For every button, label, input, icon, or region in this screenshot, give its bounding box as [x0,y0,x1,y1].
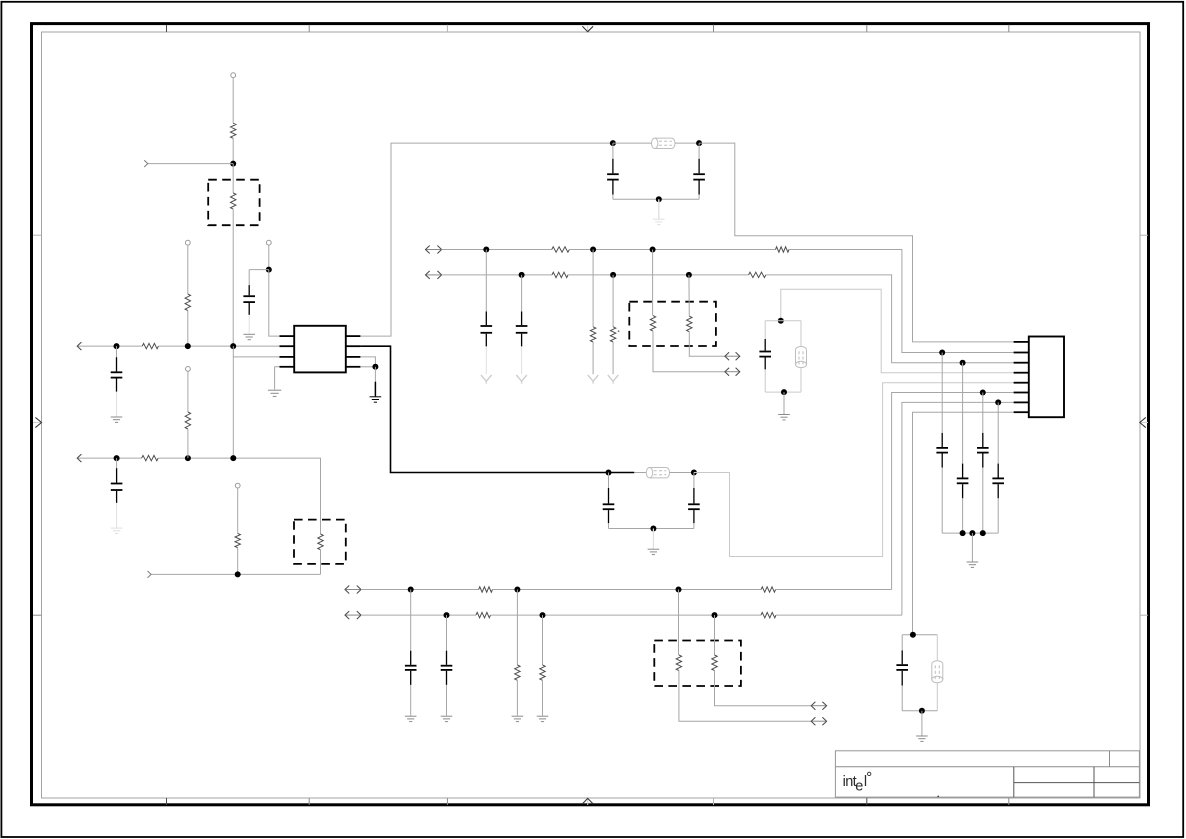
U1 pin 4 [280,366,295,368]
title block sub row line [1014,782,1140,784]
wire C-B top lead [962,363,964,464]
node feed ground [781,389,787,395]
analog ground C7 [481,375,492,384]
resistor R20 in box B3 [712,655,717,671]
J1 pin 4 [1014,372,1029,374]
wire bus5 seg2 [491,614,762,616]
capacitor C1 [111,357,123,392]
dashed option box B2 [294,520,346,564]
ground R18 [537,716,549,721]
net bus4 port arrow [345,586,361,594]
wire bus1 mid [158,345,279,347]
wire bead2 right lead [670,472,694,474]
wire C1 top lead [116,346,118,357]
wire R3 to bus1 [187,311,189,347]
resistor R14 on bus4 [761,587,776,592]
wire bus1 branch to U1 pin3 [233,346,279,357]
wire R17 to ground [516,680,518,715]
frame chevron top [582,25,593,32]
border zone tick right 1 [1140,234,1148,236]
wire C3 bottom stub [612,195,614,200]
node bead2 right [691,470,697,476]
terminal T4 [186,367,191,372]
border zone tick top 1 [166,25,168,32]
wire C7 to ground [485,346,487,374]
wire R18 to ground [542,680,544,715]
border zone tick bottom 1 [166,798,168,805]
wire R8 top lead [592,250,594,327]
U1 pin 2 [280,345,295,347]
resistor R16 on bus5 [761,612,776,617]
title block row line [835,766,1139,768]
wire R11 top lead [612,275,614,327]
wire U1 pin4 to ground [275,367,280,390]
wire cap rail ground stem [971,533,973,561]
ferrite bead FB2 [646,468,669,478]
resistor R11 [610,327,615,342]
border zone tick top 5 [866,25,868,32]
resistor R10 in box B1 [650,316,655,332]
wire C-D bottom lead [997,498,999,533]
port arrow R20 [811,702,826,710]
ferrite bead FB3 [796,347,807,368]
wire C-A bottom lead [941,468,943,533]
junction pin7/C-D [995,399,1001,405]
terminal T1 [231,73,236,78]
wire C17 bottom lead [901,686,903,711]
border zone tick left 2 [33,614,42,616]
wire C9 top lead [764,321,766,339]
node B junction [266,267,272,273]
terminal T5 [235,483,240,488]
junction bus3/R12 [686,272,692,278]
J1 pin 2 [1014,352,1029,354]
wire bead1 left lead [613,142,652,144]
net bus5 port arrow [345,611,361,619]
title block top divider [1109,751,1111,767]
wire C8 to ground [521,346,523,374]
wire C9 bottom lead [764,369,766,392]
wire C1 to ground [116,392,118,417]
wire pin7 net to bus5 [902,402,1014,615]
border zone tick top 6 [1008,25,1010,32]
wire U1 pin5 to node C [360,366,375,368]
wire R12 to port [689,332,725,357]
wire C4 bottom stub [698,195,700,200]
wire FB4 top lead [936,635,938,661]
wire node C ground lead lower [374,382,376,397]
wire bead1 ground stem [658,199,660,219]
wire C15 to ground [446,685,448,716]
ground bead1 [653,219,665,224]
wire C-B bottom lead [962,498,964,533]
wire bus4 seg2 [493,589,762,591]
resistor R17 [515,665,520,680]
wire bead2 left lead [634,472,646,474]
frame chevron left [33,417,42,427]
border zone tick bottom 4 [713,798,715,805]
border zone tick bottom 6 [1008,798,1010,805]
node bead2 left [606,470,612,476]
wire bead1 ground rail [613,198,699,200]
junction bus4/R19 [676,587,682,593]
border zone tick right 2 [1140,614,1148,616]
node A junction [230,161,236,167]
wire R23 to node D rail [320,550,322,575]
wire T5 to R24 [237,488,239,533]
ground C15 [441,716,453,721]
svg-text:l: l [864,774,867,790]
capacitor C15 [441,651,453,685]
border zone tick top 2 [308,25,310,32]
wire bead2 ground stem [652,529,654,549]
wire feed loop bottom rail [765,391,801,393]
capacitor C3 [607,159,619,195]
resistor R19 in box B3 [676,655,681,671]
junction bus1/R3 [185,343,191,349]
wire FB3 top lead [800,321,802,347]
resistor R22 [185,412,190,429]
wire C6 top stub [693,473,695,489]
wire node C ground lead upper [374,367,376,382]
power ground below node C [370,397,382,402]
analog ground R11 [608,375,619,384]
port arrow R19 [811,717,826,725]
resistor R1 [231,123,236,138]
node bead1 right [696,140,702,146]
wire bus5 seg1 [361,614,476,616]
ground R17 [512,716,524,721]
capacitor C8 [516,312,528,347]
wire R10 to port [653,331,725,372]
node bead3 ground [919,708,925,714]
wire U1 pin7 black net [360,346,634,472]
ground below C2 [243,334,255,339]
wire bead1 to connector pin1 [699,143,1014,342]
node bead3 feed [910,632,916,638]
ground below C1 [111,417,123,422]
resistor R15 on bus5 [476,612,491,617]
intel logo [843,772,871,794]
capacitor C14 [405,651,417,685]
wire R12 top lead [688,275,690,316]
junction bus6/C16 [114,455,120,461]
dashed option box B0 [208,180,259,226]
wire R10 top lead [652,250,654,316]
ground C16 [111,528,123,533]
wire node B to C2 [249,269,269,271]
port arrow R12 [725,352,740,360]
junction bus2/C7 [483,247,489,253]
wire R24 to node D [237,548,239,575]
title block vertical divider 1 [1013,767,1015,797]
capacitor C2 [243,285,255,315]
junction bus2/R10 [650,247,656,253]
wire U1 pin8 to bead1 node [360,143,613,336]
wire C5 top stub [608,473,610,489]
title block vertical divider 2 [1093,767,1095,797]
node bead2 ground [650,526,656,532]
wire C-D top lead [997,402,999,463]
wire bus2 seg1 [442,249,552,251]
ground C14 [405,716,417,721]
junction rail/C-C [980,530,986,536]
wire pin4 net feed [781,289,1014,373]
resistor R18 [540,665,545,680]
J1 pin 8 [1014,411,1029,413]
resistor R2 in box B0 [231,193,236,209]
J1 pin 1 [1014,341,1029,343]
junction pin2/C-A [939,350,945,356]
junction bus1/R2 [230,343,236,349]
terminal T3 [266,240,271,245]
junction bus5/R20 [712,612,718,618]
junction bus3/C8 [519,272,525,278]
wire C2 to ground [248,315,250,334]
wire bus2 seg2 [569,249,775,251]
wire bus1 continuation down [232,357,234,458]
wire bus5 seg3 [776,614,902,616]
capacitor C4 [693,159,705,195]
wire pin8 net to bead3 [913,412,1014,635]
resistor R3 [185,294,190,311]
J1 pin 6 [1014,392,1029,394]
U1 pin 1 [280,335,295,337]
resistor R8 [590,327,595,342]
terminal T2 [185,240,190,245]
wire bead3 bottom rail [902,710,937,712]
junction rail/C-B [960,530,966,536]
wire feed loop top rail [765,320,801,322]
wire bus2 to connector pin2 [789,250,1014,353]
wire C-A top lead [941,353,943,433]
border zone tick top 3 [446,25,448,32]
wire R20 top lead [714,615,716,655]
capacitor C10 [936,433,948,468]
wire bus4 seg1 [361,589,479,591]
stray dot [618,330,620,332]
resistor R12 in box B1 [687,316,692,332]
wire bus3 to connector pin3 [766,275,1014,363]
net bus6 arrow left [77,454,141,462]
capacitor C12 [977,433,989,468]
wire node A down through box [232,164,234,193]
wire R8 to ground [592,342,594,374]
ground feed RC [778,415,790,420]
wire C-C top lead [982,393,984,433]
wire C-C bottom lead [982,468,984,533]
analog ground C8 [516,375,527,384]
net bus3 port arrow [426,271,442,279]
wire R18 top lead [542,615,544,665]
wire bus3 seg2 [568,274,749,276]
wire bus6 mid [158,458,320,534]
wire bead3 top rail [902,634,937,636]
wire C4 top stub [698,143,700,159]
op-amp U1 body [294,326,346,373]
junction rail/stem [969,530,975,536]
wire U1 pin6 to node C [360,357,375,367]
wire C5 bottom stub [608,523,610,528]
dashed option box B3 [654,641,741,687]
net bus2 port arrow [426,246,442,254]
wire feed ground stem [783,392,785,414]
wire C14 top lead [410,590,412,651]
wire R22 to bus6 [187,429,189,458]
resistor R13 on bus4 [479,587,493,592]
off-page arrow node D [148,571,321,578]
wire C3 top stub [612,143,614,159]
wire C8 lead [521,275,523,312]
junction bus4/C14 [408,587,414,593]
node D junction [235,571,241,577]
border zone tick bottom 5 [866,798,868,805]
analog ground R8 [588,375,599,384]
ground cap rail [967,562,979,567]
junction bus3/R11 [610,272,616,278]
resistor R7 on bus3 [552,272,568,277]
J1 pin 5 [1014,382,1029,384]
wire node B down to U1 pin1 [269,270,280,337]
node feed top [778,318,784,324]
wire bus4 seg3 [776,589,892,591]
wire pin6 net to bus4 [892,393,1014,590]
U1 pin 6 [346,356,361,358]
wire T3 to node B [268,245,270,270]
ferrite bead FB4 [932,661,943,683]
capacitor C7 [481,312,493,347]
wire R20 to port [715,671,812,706]
wire bead1 right lead [675,142,699,144]
capacitor C13 [992,464,1004,499]
wire C16 to ground [116,503,118,528]
wire R2 to bus1 [232,209,234,346]
ground U1 pin4 [268,390,281,396]
wire T2 to R3 [187,245,189,294]
border zone tick top 4 [713,25,715,32]
capacitor C11 [957,464,969,499]
border zone tick bottom 3 [446,798,448,805]
junction bus2/R8 [590,247,596,253]
ground bead2 [648,549,660,554]
resistor R6 on bus2 [776,247,790,252]
capacitor C5 [603,488,615,523]
wire R17 top lead [516,590,518,666]
port arrow R10 [725,368,740,376]
junction bus5/C15 [444,612,450,618]
resistor R24 [235,533,240,547]
junction bus6/R22 [185,455,191,461]
wire FB4 bottom lead [936,683,938,711]
wire bead2 to pin5 net [694,383,1014,557]
title block stray dot [937,796,939,798]
U1 pin 3 [280,356,295,358]
connector J1 body [1029,337,1064,418]
capacitor C17 [896,650,908,685]
wire FB3 bottom lead [800,368,802,393]
node bead1 left [610,140,616,146]
J1 pin 7 [1014,401,1029,403]
wire C14 to ground [410,685,412,716]
resistor R21 on bus6 [142,455,159,460]
wire C7 lead [485,250,487,312]
svg-text:e: e [855,778,863,794]
wire R11 to ground [612,342,614,374]
wire R19 top lead [678,590,680,656]
U1 pin 7 [346,345,361,347]
frame chevron right [1140,417,1148,427]
junction pin6/C-C [980,390,986,396]
wire C6 bottom stub [693,523,695,528]
node C junction [372,364,378,370]
resistor R9 on bus3 [749,272,766,277]
wire C16 top lead [116,458,118,468]
wire C2 top lead [248,270,250,286]
U1 pin 8 [346,335,361,337]
capacitor C16 [111,468,123,503]
resistor R23 in box B2 [318,534,323,550]
wire bead3 ground stem [921,711,923,736]
resistor R5 on bus2 [552,247,570,252]
wire cap ground rail [942,532,998,534]
title block outline [835,751,1139,797]
J1 pin 3 [1014,362,1029,364]
U1 pin 5 [346,366,361,368]
wire bus3 seg1 [442,274,552,276]
junction bus4/R17 [514,587,520,593]
wire T4 to R22 [187,371,189,412]
wire bead2 ground rail [609,528,694,530]
resistor R4 on bus1 [142,343,158,348]
border zone tick left 1 [33,234,42,236]
wire T1 to R1 [232,78,234,124]
junction pin3/C-B [960,360,966,366]
wire R19 to port [679,671,811,722]
wire C15 top lead [446,615,448,651]
dashed option box B1 [629,302,716,346]
frame chevron bottom [582,798,593,805]
capacitor C6 [688,488,700,523]
net bus1 arrow left [77,342,142,350]
wire R1 to node A [232,138,234,163]
junction bus5/R18 [540,612,546,618]
ground bead3 [916,736,928,741]
ferrite bead FB1 [652,138,676,148]
off-page arrow into node A [144,160,233,167]
wire C17 top lead [901,635,903,651]
node bead1 ground [656,196,662,202]
capacitor C9 [759,339,771,369]
junction bus6/chain [230,455,236,461]
border zone tick bottom 2 [308,798,310,805]
junction bus1/C1 [114,343,120,349]
